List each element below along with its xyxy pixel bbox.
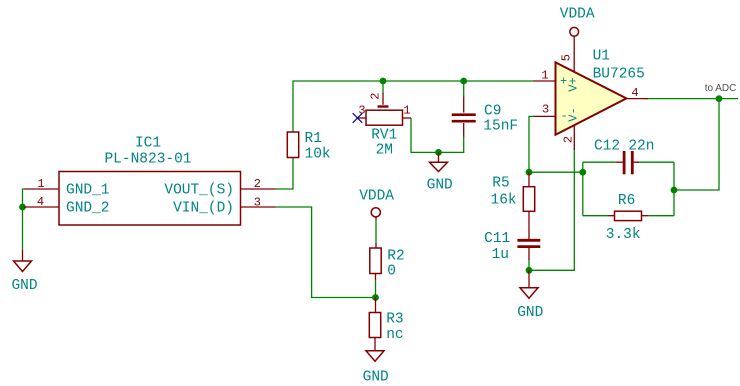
svg-text:4: 4: [631, 86, 638, 100]
svg-text:1: 1: [403, 104, 410, 118]
junction node C11 bottom: [526, 267, 533, 274]
U1 pin 4 (output): [626, 86, 648, 100]
svg-text:VDDA: VDDA: [560, 7, 595, 23]
svg-text:3: 3: [254, 196, 261, 210]
svg-text:R1: R1: [305, 131, 322, 147]
junction node feedback left: [579, 169, 586, 176]
svg-text:R6: R6: [618, 193, 635, 209]
svg-text:10k: 10k: [305, 147, 331, 163]
svg-text:V-: V-: [567, 107, 581, 121]
svg-text:2: 2: [561, 136, 575, 143]
svg-text:R5: R5: [492, 176, 509, 192]
wire feedback box bottom side left: [583, 215, 608, 217]
svg-text:C11: C11: [484, 231, 510, 247]
junction node RV1/C9 gnd: [435, 149, 442, 156]
svg-text:15nF: 15nF: [483, 119, 518, 135]
resistor R2: [370, 248, 405, 298]
wire feedback box right side: [673, 162, 675, 216]
svg-text:1: 1: [37, 177, 44, 191]
ground symbol bottom-left: [11, 250, 37, 294]
no-connect X on RV1 pin 3: [353, 113, 363, 123]
ground symbol under C11: [517, 270, 543, 321]
wire RV1 pin2 drop: [382, 81, 384, 94]
resistor R3: [369, 298, 403, 344]
svg-text:GND_1: GND_1: [66, 183, 110, 199]
junction node IC1 gnd: [19, 204, 26, 211]
svg-text:C9: C9: [484, 104, 501, 120]
potentiometer RV1: [358, 93, 411, 159]
svg-text:GND: GND: [427, 178, 453, 194]
svg-text:2: 2: [254, 177, 261, 191]
svg-text:R2: R2: [387, 249, 404, 265]
op-amp U1: [556, 49, 645, 135]
ground symbol under C9/RV1: [427, 152, 453, 193]
wire top rail from R1 to U1 pin1: [293, 81, 534, 132]
svg-text:to ADC: to ADC: [705, 83, 737, 94]
capacitor C12: [594, 139, 655, 175]
svg-text:PL-N823-01: PL-N823-01: [104, 152, 191, 168]
svg-text:GND: GND: [11, 278, 37, 294]
wire R1 bottom to IC1 pin2: [276, 158, 294, 190]
U1 pin 1: [534, 69, 568, 89]
wire feedback box bottom side right: [648, 215, 674, 217]
wire C9 top drop: [463, 81, 465, 97]
wire U1 output to ADC: [646, 98, 738, 100]
junction node output: [716, 95, 723, 102]
IC1 pin 1: [24, 177, 110, 199]
svg-text:3: 3: [542, 103, 549, 117]
resistor R1: [287, 131, 330, 163]
svg-text:GND_2: GND_2: [66, 201, 110, 217]
wire feedback box top side left: [583, 161, 616, 163]
power symbol VDDA (middle): [359, 189, 394, 249]
svg-text:2: 2: [369, 93, 383, 100]
svg-text:2M: 2M: [376, 143, 393, 159]
svg-text:RV1: RV1: [371, 128, 397, 144]
IC1 pin 3: [173, 196, 275, 217]
svg-text:VIN_(D): VIN_(D): [173, 201, 234, 217]
resistor R6: [606, 193, 648, 243]
wire IC1 pin4 stub: [23, 206, 26, 208]
capacitor C11: [484, 211, 540, 263]
svg-text:GND: GND: [363, 370, 389, 386]
junction node feedback right: [671, 187, 678, 194]
svg-text:VOUT_(S): VOUT_(S): [164, 183, 234, 199]
capacitor C9: [452, 104, 518, 135]
svg-text:22n: 22n: [628, 139, 654, 155]
svg-text:nc: nc: [386, 327, 403, 343]
power symbol VDDA (top): [560, 7, 595, 73]
wire C9 bottom to GND junction: [463, 123, 465, 137]
junction node RV1 wiper: [380, 78, 387, 85]
wire IC1 pin1 to GND: [23, 189, 25, 250]
svg-text:C12: C12: [594, 139, 620, 155]
U1 pin 5 (V+): [559, 54, 580, 92]
svg-text:1u: 1u: [492, 247, 509, 263]
junction node C9 top: [460, 78, 467, 85]
junction node R5 top: [526, 169, 533, 176]
IC1 pin 2: [164, 177, 275, 199]
wire RV1 pin1 to GND junction: [411, 118, 439, 152]
svg-text:0: 0: [387, 264, 396, 280]
svg-text:5: 5: [559, 54, 573, 61]
svg-text:3.3k: 3.3k: [606, 227, 641, 243]
IC1 pin 4: [24, 195, 110, 217]
svg-text:BU7265: BU7265: [593, 67, 645, 83]
wire feedback box top side right: [637, 161, 674, 163]
svg-text:R3: R3: [386, 312, 403, 328]
U1 pin 3: [534, 103, 568, 124]
svg-text:GND: GND: [517, 305, 543, 321]
U1 pin 2 (V-): [561, 107, 580, 150]
svg-text:16k: 16k: [491, 193, 517, 209]
svg-text:U1: U1: [593, 49, 610, 65]
wire output node down to feedback: [674, 99, 719, 190]
svg-text:IC1: IC1: [135, 136, 161, 152]
resistor R5: [491, 172, 535, 211]
wire U1 pin3 to R5 node: [529, 116, 583, 172]
wire feedback box left side: [582, 162, 584, 216]
ground symbol under R3: [363, 338, 389, 386]
svg-text:V+: V+: [567, 77, 581, 91]
IC1 PL-N823-01 body: [59, 172, 241, 226]
junction node R2/R3: [372, 294, 379, 301]
wire IC1 pin3 to R2/R3 junction: [276, 207, 376, 298]
wire C11 bottom to U1 pin2: [529, 148, 574, 270]
svg-text:4: 4: [37, 195, 44, 209]
svg-text:1: 1: [541, 69, 548, 83]
svg-text:VDDA: VDDA: [359, 189, 394, 205]
